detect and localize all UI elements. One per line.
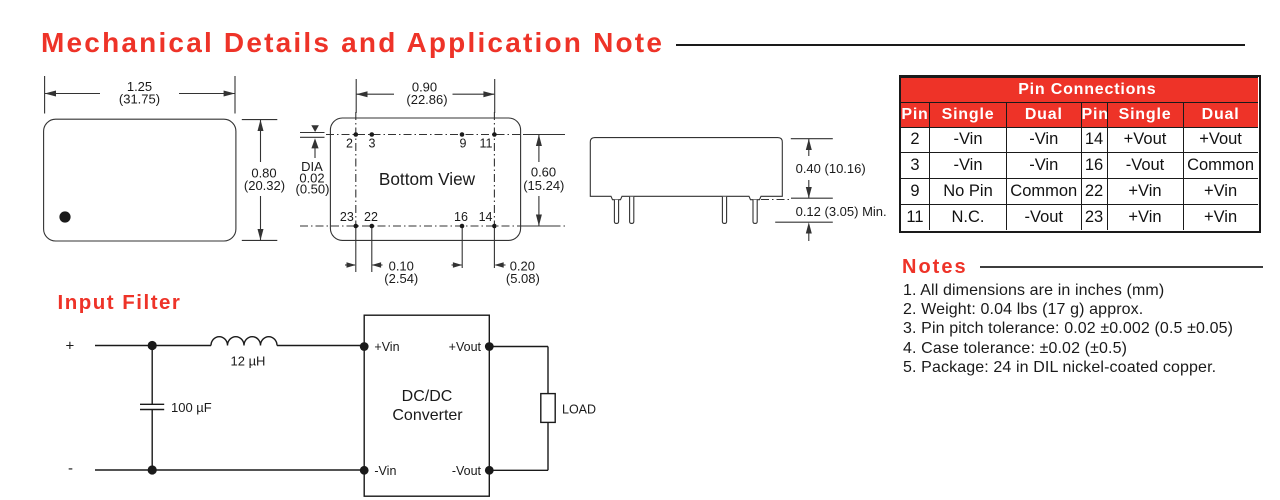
svg-text:16: 16 <box>454 210 468 224</box>
svg-text:LOAD: LOAD <box>562 402 596 416</box>
svg-text:(0.50): (0.50) <box>296 182 330 197</box>
svg-text:22: 22 <box>364 210 378 224</box>
svg-text:12 µH: 12 µH <box>231 354 266 369</box>
svg-text:0.40 (10.16): 0.40 (10.16) <box>796 161 866 176</box>
svg-text:(5.08): (5.08) <box>506 271 540 286</box>
svg-text:+Vout: +Vout <box>449 340 482 354</box>
svg-text:(15.24): (15.24) <box>523 178 564 193</box>
svg-text:(31.75): (31.75) <box>119 91 160 106</box>
svg-text:3: 3 <box>369 137 376 151</box>
svg-text:-Vin: -Vin <box>374 464 396 478</box>
svg-text:2: 2 <box>346 137 353 151</box>
svg-text:(22.86): (22.86) <box>406 92 447 107</box>
svg-text:(20.32): (20.32) <box>244 178 285 193</box>
svg-text:Bottom View: Bottom View <box>379 169 476 189</box>
svg-text:+: + <box>66 337 75 354</box>
svg-text:14: 14 <box>479 210 493 224</box>
svg-text:Converter: Converter <box>392 407 463 424</box>
svg-text:9: 9 <box>460 137 467 151</box>
svg-text:(2.54): (2.54) <box>384 271 418 286</box>
svg-text:0.12 (3.05) Min.: 0.12 (3.05) Min. <box>796 204 887 219</box>
svg-text:-: - <box>68 460 73 477</box>
svg-text:100 µF: 100 µF <box>171 400 212 415</box>
svg-text:-Vout: -Vout <box>452 464 482 478</box>
svg-text:DC/DC: DC/DC <box>402 388 453 405</box>
svg-text:11: 11 <box>480 137 493 151</box>
svg-text:+Vin: +Vin <box>374 340 399 354</box>
svg-text:23: 23 <box>340 210 354 224</box>
